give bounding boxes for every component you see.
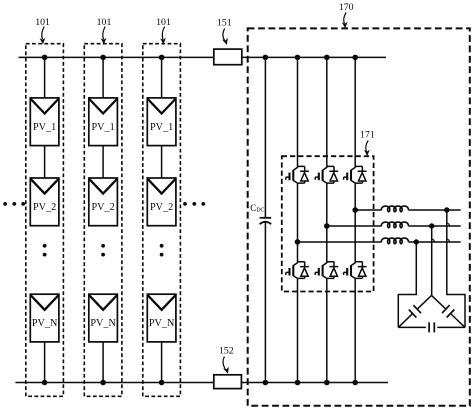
leg 3 middle wire: [354, 183, 356, 262]
wire U drop: [447, 210, 465, 327]
inductor L3: [381, 238, 408, 244]
svg-text:PV_1: PV_1: [150, 122, 173, 133]
PV module PV_1 (string3): [147, 98, 176, 146]
capacitor bank: right slant edge wires: [432, 295, 466, 327]
wire PV_1 to PV_2: [102, 146, 104, 178]
IGBT Q2 (leg2 top): [315, 166, 338, 183]
node: phase U tap dot: [352, 207, 358, 213]
leader arrow to 171: [364, 141, 370, 157]
PV module PV_1 (string1): [30, 98, 59, 146]
DC bus wire inside 170: [242, 56, 386, 58]
node: phase V tap dot: [324, 223, 330, 229]
phase V line (middle): [327, 225, 461, 227]
horizontal ellipsis (right of string 3): [183, 202, 205, 206]
leader arrow to 170: [342, 13, 348, 29]
PV module PV_2 (string2): [89, 178, 118, 226]
node: DC+ / Cdc junction dot: [263, 55, 269, 61]
svg-text:151: 151: [217, 18, 232, 29]
junction dot leg3 / bottom bus: [352, 380, 358, 386]
wire PV_1 to PV_2: [161, 146, 163, 178]
inductor L2: [381, 222, 408, 228]
capacitor C3 plates (bottom): [429, 322, 434, 332]
PV module PV_2 (string1): [30, 178, 59, 226]
node: phase W tap dot: [295, 239, 301, 245]
svg-text:PV_2: PV_2: [150, 202, 173, 213]
junction dot string3 / bottom bus: [159, 380, 165, 386]
node: U output dot: [444, 207, 449, 212]
svg-text:152: 152: [219, 346, 234, 357]
crossover hop U over W line: [447, 239, 450, 242]
svg-text:PV_1: PV_1: [33, 122, 56, 133]
leg 2 middle wire: [326, 183, 328, 262]
bridge dashed box 171: [282, 156, 374, 291]
junction dot leg1 / bottom bus: [295, 380, 301, 386]
PV module PV_N (string3): [147, 294, 176, 342]
wire bus to PV_1: [161, 57, 163, 98]
leader arrow to string 3: [160, 27, 166, 45]
node: DC+ leg3 dot: [352, 55, 358, 61]
pv string 2 dashed box 101: [84, 44, 122, 397]
top bus wire (left): [19, 56, 214, 58]
svg-text:101: 101: [156, 17, 171, 28]
junction dot string1 / bottom bus: [42, 380, 48, 386]
IGBT Q4 (leg1 bottom): [286, 262, 309, 279]
IGBT Q3 (leg3 top): [344, 166, 367, 183]
junction dot string1 / top bus: [42, 55, 48, 61]
wire Cdc lower: [264, 222, 266, 383]
junction dot string3 / top bus: [159, 55, 165, 61]
pv string 1 dashed box 101: [26, 44, 64, 397]
leg 3 lower wire: [354, 278, 356, 382]
junction dot Cdc / bottom bus: [263, 380, 269, 386]
PV module PV_2 (string3): [147, 178, 176, 226]
inductor L1: [381, 206, 408, 212]
svg-text:171: 171: [360, 129, 375, 140]
capacitor C1 plates (left slant): [409, 305, 421, 317]
leg 2 upper wire: [326, 57, 328, 166]
capacitor C2 plates (right slant): [442, 305, 454, 317]
leader arrow to string 2: [101, 27, 107, 45]
wire V drop: [431, 226, 433, 295]
ellipsis dots string2: [101, 244, 105, 248]
breaker box 151: [214, 49, 242, 65]
capacitor bank: bottom edge wires: [398, 326, 465, 328]
IGBT Q6 (leg3 bottom): [344, 262, 367, 279]
phase U line (top): [355, 209, 461, 211]
pv string 3 dashed box 101: [143, 44, 181, 397]
svg-text:PV_N: PV_N: [32, 318, 58, 329]
crossover hop U over V line: [447, 223, 450, 226]
wire PV_1 to PV_2: [44, 146, 46, 178]
svg-text:PV_1: PV_1: [91, 122, 114, 133]
IGBT Q5 (leg2 bottom): [315, 262, 338, 279]
leg 3 upper wire: [354, 57, 356, 166]
bottom bus wire (left): [15, 382, 213, 384]
PV module PV_1 (string2): [89, 98, 118, 146]
svg-text:101: 101: [35, 17, 50, 28]
wire W drop: [398, 242, 416, 327]
PV module PV_N (string2): [89, 294, 118, 342]
IGBT Q1 (leg1 top): [286, 166, 309, 183]
leader arrow to 152: [223, 357, 229, 374]
junction dot leg2 / bottom bus: [324, 380, 330, 386]
horizontal ellipsis (left of strings): [3, 202, 25, 206]
svg-text:170: 170: [339, 2, 354, 13]
wire PV_N to bottom bus (string3): [161, 342, 163, 383]
capacitor Cdc: [260, 218, 272, 224]
node: DC+ leg2 dot: [324, 55, 330, 61]
leg 2 lower wire: [326, 278, 328, 382]
crossover hop V over W line: [432, 239, 435, 242]
node: W output dot: [414, 239, 419, 244]
svg-text:CDC: CDC: [250, 203, 264, 214]
wire bus to PV_1: [44, 57, 46, 98]
svg-text:PV_2: PV_2: [33, 202, 56, 213]
wire bus to PV_1: [102, 57, 104, 98]
ellipsis dots string1: [43, 244, 47, 248]
phase W line (bottom): [298, 241, 461, 243]
ellipsis dots string3: [160, 244, 164, 248]
node: V output dot: [429, 223, 434, 228]
leg 1 lower wire: [297, 278, 299, 382]
svg-text:PV_2: PV_2: [91, 202, 114, 213]
leg 1 upper wire: [297, 57, 299, 166]
PV module PV_N (string1): [30, 294, 59, 342]
bottom bus wire inside 170: [241, 382, 388, 384]
leg 1 middle wire: [297, 183, 299, 262]
inverter unit dashed box 170: [248, 28, 470, 405]
junction dot string2 / bottom bus: [100, 380, 106, 386]
svg-text:PV_N: PV_N: [149, 318, 175, 329]
capacitor bank: left slant edge wires: [398, 295, 431, 327]
svg-text:PV_N: PV_N: [90, 318, 116, 329]
wire PV_N to bottom bus (string1): [44, 342, 46, 383]
wire Cdc upper: [264, 57, 266, 217]
wire PV_N to bottom bus (string2): [102, 342, 104, 383]
junction dot string2 / top bus: [100, 55, 106, 61]
svg-text:101: 101: [97, 17, 112, 28]
breaker box 152: [214, 375, 242, 389]
node: DC+ leg1 dot: [295, 55, 301, 61]
leader arrow to 151: [222, 29, 228, 45]
leader arrow to string 1: [40, 27, 46, 45]
